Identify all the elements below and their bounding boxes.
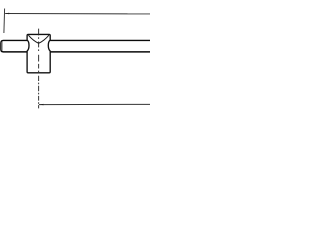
countersink funnel V [28, 35, 49, 43]
rod right segment bottom edge [50, 51, 151, 53]
extension line (left vertical) [3, 9, 6, 34]
arrowhead (bottom dimension, pointing left) [39, 104, 43, 105]
bottom dimension line [39, 103, 151, 105]
centerline (vertical dash-dot) [38, 29, 40, 109]
fitting body outline [27, 34, 50, 72]
rod left end inner face line (faint) [1, 41, 3, 51]
top dimension line [5, 13, 150, 15]
arrowhead (top dimension, pointing left) [5, 13, 9, 15]
rod right segment top edge [50, 39, 151, 41]
rod left segment [1, 40, 28, 51]
